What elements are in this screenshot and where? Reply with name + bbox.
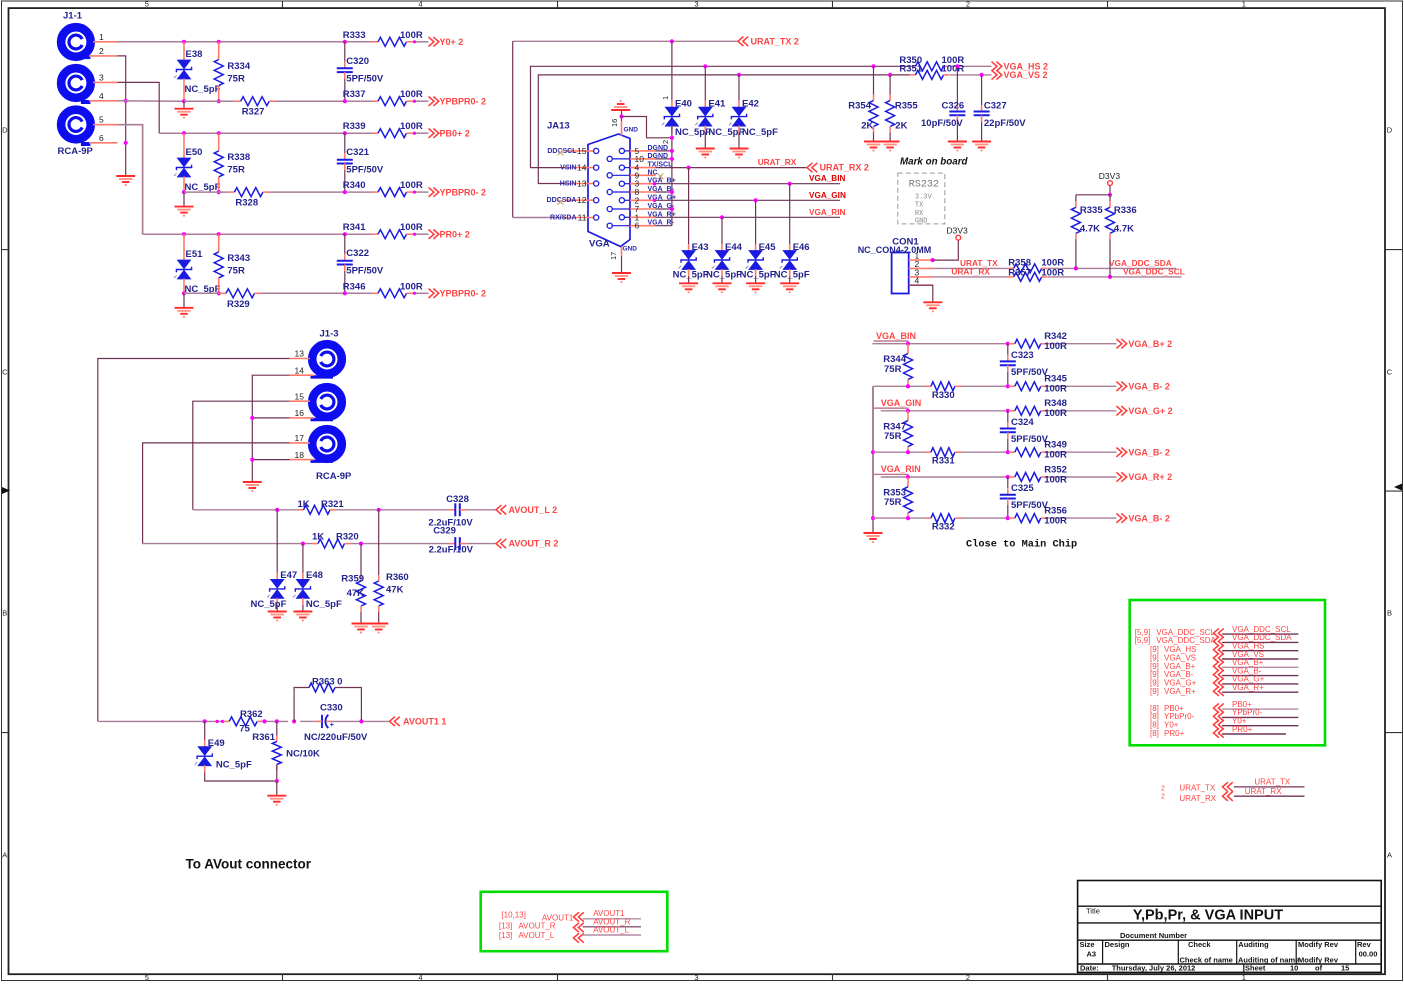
resistor R363 bypass <box>294 677 361 722</box>
wire pin16 to DGND rail <box>622 117 672 138</box>
svg-text:NC_5pF: NC_5pF <box>740 270 776 281</box>
svg-text:URAT_TX 2: URAT_TX 2 <box>751 36 799 46</box>
junction C324 bottom <box>1006 450 1010 454</box>
svg-text:GND: GND <box>915 217 928 225</box>
svg-text:2: 2 <box>966 973 970 982</box>
svg-text:VGA: VGA <box>589 239 610 250</box>
svg-text:B: B <box>1387 609 1392 618</box>
svg-text:R360: R360 <box>386 572 409 583</box>
svg-text:R363: R363 <box>312 677 335 688</box>
wire PR0 top row <box>184 233 429 235</box>
junction R361 top <box>275 719 279 723</box>
port Y0 YPBPR0- <box>429 96 487 106</box>
svg-text:1K: 1K <box>298 499 310 510</box>
junction E48 top <box>301 542 305 546</box>
resistor R352 <box>1009 464 1067 485</box>
junction R347 bottom <box>906 450 910 454</box>
capacitor C329 <box>429 526 474 556</box>
svg-text:VGA_B- 2: VGA_B- 2 <box>1128 382 1170 392</box>
wire Y0 bottom row <box>184 100 429 102</box>
junction R335 bottom <box>1074 266 1078 270</box>
ground R360 <box>369 624 388 634</box>
svg-text:D: D <box>2 126 8 135</box>
junction R353 bottom <box>906 516 910 520</box>
svg-text:E51: E51 <box>186 249 204 260</box>
port AVOUT_L 2 <box>496 505 557 515</box>
wire DGND pin10 <box>656 158 672 160</box>
resistor R334 <box>214 42 251 101</box>
svg-text:VGA_B- 2: VGA_B- 2 <box>1128 447 1170 457</box>
svg-text:1: 1 <box>661 96 670 100</box>
junction R334 top <box>217 40 221 44</box>
svg-text:J1-1: J1-1 <box>63 11 83 22</box>
tvs diode E45 <box>740 200 777 283</box>
label 2 URAT_TX <box>1161 783 1216 792</box>
svg-text:7: 7 <box>635 204 640 214</box>
resistor R327 <box>235 97 276 118</box>
junction aux a <box>216 720 219 723</box>
svg-text:5PF/50V: 5PF/50V <box>1011 367 1049 378</box>
capacitor C330 <box>304 702 368 742</box>
svg-text:R337: R337 <box>343 89 366 100</box>
junction C321 top <box>343 131 347 135</box>
svg-text:Sheet: Sheet <box>1245 964 1266 973</box>
junction E49 top <box>203 719 207 723</box>
wire PB0 bottom row <box>184 191 429 193</box>
svg-text:VGA_DDC_SCL: VGA_DDC_SCL <box>1123 266 1185 276</box>
resistor R359 <box>341 544 365 624</box>
no-connect X pin9 NC <box>658 173 664 179</box>
svg-text:R321: R321 <box>321 499 344 510</box>
junction C320 bottom <box>343 99 347 103</box>
junction pin16 <box>619 114 623 118</box>
junction pin16 rail <box>250 416 254 420</box>
resistor R347 <box>883 411 912 453</box>
CON1 pin 4 <box>909 276 933 286</box>
svg-text:R357: R357 <box>1008 268 1031 279</box>
ground C326 <box>948 142 967 152</box>
svg-text:1: 1 <box>1242 973 1246 982</box>
port VGA_VS 2 <box>992 70 1048 80</box>
svg-text:R330: R330 <box>932 390 955 401</box>
wire ground rail pins 2-4-6 <box>118 56 126 176</box>
J1-3 pin 17 <box>290 433 310 443</box>
resistor R335 <box>1071 195 1103 269</box>
svg-text:E43: E43 <box>692 242 709 253</box>
junction C323 bottom <box>1006 384 1010 388</box>
ground J1-3 rail <box>243 482 262 492</box>
svg-text:[13]: [13] <box>499 921 512 930</box>
junction R360 top <box>377 508 381 512</box>
svg-text:R354: R354 <box>848 101 871 112</box>
JA13 pin 4 TX/SCL <box>619 162 673 173</box>
svg-text:AVOUT_L: AVOUT_L <box>518 931 554 940</box>
resistor R329 <box>220 289 261 310</box>
svg-text:100R: 100R <box>1044 515 1067 526</box>
svg-text:C327: C327 <box>984 101 1007 112</box>
capacitor C323 <box>1000 344 1049 387</box>
svg-text:VGA_GIN: VGA_GIN <box>881 398 922 408</box>
JA13 pin 8 VGA_B- <box>607 186 675 197</box>
wire PR0 bottom row <box>184 292 429 294</box>
junction E50 bottom <box>182 190 186 194</box>
svg-text:5: 5 <box>99 115 104 125</box>
net AVOUT_L line <box>583 926 641 935</box>
svg-text:JA13: JA13 <box>547 121 570 132</box>
ground E44 <box>713 283 732 293</box>
svg-text:URAT_TX: URAT_TX <box>1179 783 1216 792</box>
wire VGA_DDC_SDA <box>1048 258 1176 269</box>
svg-text:NC: NC <box>648 169 658 176</box>
capacitor C328 <box>428 494 473 529</box>
tvs diode E38 <box>174 42 221 101</box>
J1-1 pin 1 <box>93 32 118 42</box>
svg-text:2: 2 <box>1161 793 1165 800</box>
junction E50 top <box>182 131 186 135</box>
svg-text:5PF/50V: 5PF/50V <box>346 266 384 277</box>
svg-text:URAT_RX: URAT_RX <box>1245 787 1282 796</box>
wire AVOUT1 row <box>264 720 390 722</box>
port VGA_HS 2 <box>992 61 1049 71</box>
junction DGND pin10 <box>670 157 674 161</box>
port PB0 YPBPR0- <box>429 187 487 197</box>
junction C323 top <box>1006 342 1010 346</box>
wire VGA_VS row <box>538 75 991 184</box>
J1-1 pin 6 <box>89 133 118 143</box>
capacitor C321 <box>337 133 384 192</box>
svg-text:5PF/50V: 5PF/50V <box>346 73 384 84</box>
wire pin5 to PR0 row <box>118 125 379 235</box>
svg-text:PB0+ 2: PB0+ 2 <box>440 128 470 138</box>
J1-3 pin 18 <box>290 450 314 460</box>
junction R344 top <box>906 342 910 346</box>
svg-text:Auditing: Auditing <box>1238 940 1269 949</box>
wire VGA_B- row <box>873 385 1116 387</box>
junction R363 left <box>292 719 296 723</box>
svg-text:E44: E44 <box>725 242 743 253</box>
junction pin2 stub <box>653 199 657 203</box>
ground E42 <box>730 149 749 159</box>
ground E48 <box>293 612 312 622</box>
resistor R353 <box>883 477 912 519</box>
svg-text:18: 18 <box>295 450 305 460</box>
svg-text:4: 4 <box>418 0 422 9</box>
capacitor C320 <box>337 42 384 101</box>
svg-text:URAT_RX: URAT_RX <box>758 157 797 167</box>
svg-text:C: C <box>2 368 8 377</box>
net label VGA_RIN <box>874 464 921 474</box>
tvs diode E50 <box>174 133 221 193</box>
svg-text:Close to Main Chip: Close to Main Chip <box>966 539 1077 551</box>
resistor R354 <box>848 66 878 141</box>
wire AVOUT_L row <box>336 509 496 511</box>
JA13 pin 9 NC <box>607 169 658 180</box>
connector J1-1 jack B <box>61 68 91 102</box>
connector J1-3 jack A <box>311 329 342 377</box>
ground E45 <box>746 283 765 293</box>
capacitor C325 <box>1000 477 1049 518</box>
capacitor C326 <box>921 66 965 141</box>
resistor R344 <box>883 344 912 386</box>
ground J1-1 rail <box>116 176 135 186</box>
svg-text:C326: C326 <box>942 101 965 112</box>
ground R355 <box>881 142 900 152</box>
wire VGA_HS row <box>531 66 992 167</box>
junction E38 bottom <box>182 99 186 103</box>
junction E40 top <box>670 39 674 43</box>
svg-text:URAT_TX: URAT_TX <box>1254 778 1291 787</box>
svg-text:R334: R334 <box>227 61 250 72</box>
note Close to Main Chip <box>966 539 1077 551</box>
CON1 pin 2 <box>909 259 933 269</box>
svg-text:A3: A3 <box>1087 949 1097 958</box>
JA13 pin 5 DGND <box>619 145 668 156</box>
junction R336 bottom <box>1108 275 1112 279</box>
tvs diode E41 <box>695 99 744 149</box>
svg-text:AVOUT_L 2: AVOUT_L 2 <box>509 505 558 515</box>
svg-text:YPBPR0- 2: YPBPR0- 2 <box>440 187 487 197</box>
svg-text:R340: R340 <box>343 180 366 191</box>
svg-text:4.7K: 4.7K <box>1114 224 1134 235</box>
svg-text:AVOUT_R: AVOUT_R <box>518 921 555 930</box>
svg-text:NC_5pF: NC_5pF <box>185 84 221 95</box>
svg-text:47K: 47K <box>347 588 365 599</box>
JA13 pin 6 VGA_R- <box>607 220 675 231</box>
resistor R321 <box>298 499 345 514</box>
tvs diode E40 <box>661 41 711 144</box>
svg-text:15: 15 <box>295 391 305 401</box>
junction R346 out <box>413 292 416 295</box>
svg-text:RS232: RS232 <box>909 179 940 190</box>
svg-text:4: 4 <box>915 276 920 286</box>
label [8] PR0+ <box>1150 729 1185 738</box>
svg-text:NC_5pF: NC_5pF <box>306 599 342 610</box>
junction E41 top <box>703 64 707 68</box>
resistor R332 <box>925 514 961 533</box>
connector CON1 <box>858 237 932 294</box>
svg-text:R361: R361 <box>252 732 275 743</box>
svg-text:5: 5 <box>145 973 149 982</box>
svg-text:[10,13]: [10,13] <box>501 911 525 920</box>
label [9] VGA_G+ <box>1150 678 1197 687</box>
svg-text:[8]: [8] <box>1150 729 1159 738</box>
svg-text:PR0+: PR0+ <box>1232 725 1253 734</box>
svg-text:A: A <box>2 851 7 860</box>
svg-text:VGA_R+: VGA_R+ <box>1232 683 1264 692</box>
no-connect X DDCSCL <box>558 150 564 156</box>
resistor R337 <box>343 89 423 106</box>
svg-text:NC_CON4-2.0MM: NC_CON4-2.0MM <box>858 245 932 255</box>
junction E44 top <box>720 215 724 219</box>
wire pin4 row to E38 <box>118 100 185 102</box>
svg-text:17: 17 <box>609 252 618 260</box>
svg-text:100R: 100R <box>1044 341 1067 352</box>
port PR0 YPBPR0- <box>429 289 487 299</box>
svg-text:R346: R346 <box>343 281 366 292</box>
svg-text:Y0+ 2: Y0+ 2 <box>440 37 464 47</box>
capacitor C324 <box>1000 411 1049 452</box>
svg-text:8: 8 <box>635 187 640 197</box>
svg-text:100R: 100R <box>1044 450 1067 461</box>
wire pin15 to AVOUT_L rail <box>193 401 298 510</box>
port VGA_B- R out <box>1116 513 1170 523</box>
wire pin8 to rail <box>656 191 672 193</box>
svg-text:VGA_BIN: VGA_BIN <box>876 331 916 341</box>
junction C321 bottom <box>343 190 347 194</box>
resistor R336 <box>1106 195 1137 277</box>
ground E38 <box>175 101 194 119</box>
wire VGA_DDC_SCL <box>1048 266 1185 277</box>
tvs diode E42 <box>729 99 778 149</box>
port VGA_R+ out <box>1116 472 1172 482</box>
svg-text:4: 4 <box>418 973 422 982</box>
svg-text:VGA_DDC_SDA: VGA_DDC_SDA <box>1156 636 1216 645</box>
svg-text:1: 1 <box>99 32 104 42</box>
wire PB0 top row <box>184 132 429 134</box>
svg-text:J1-3: J1-3 <box>320 329 339 340</box>
svg-text:11: 11 <box>578 213 587 223</box>
svg-text:C330: C330 <box>320 702 343 713</box>
J1-3 pin 14 <box>290 365 314 375</box>
junction C325 top <box>1006 475 1010 479</box>
net VGA_B- port <box>1214 666 1299 679</box>
resistor R356 <box>1009 505 1067 526</box>
svg-text:2: 2 <box>661 140 670 144</box>
junction C322 bottom <box>343 291 347 295</box>
svg-text:5: 5 <box>145 0 149 9</box>
chevrons box1 <box>574 912 584 942</box>
resistor R328 <box>228 188 269 209</box>
wire VGA_G+ row <box>881 410 1117 412</box>
svg-text:4.7K: 4.7K <box>1080 224 1100 235</box>
green box AVOUT ports <box>481 892 668 951</box>
net URAT_RX port <box>1223 787 1305 801</box>
svg-text:VGA_RIN: VGA_RIN <box>881 464 921 474</box>
svg-text:R327: R327 <box>242 107 265 118</box>
svg-text:10: 10 <box>635 154 645 164</box>
node [13] AVOUT_R <box>499 921 556 930</box>
ground right net rail <box>864 533 883 543</box>
wire VGA_RIN row <box>656 208 846 217</box>
svg-text:E50: E50 <box>186 147 203 158</box>
svg-text:R331: R331 <box>932 456 955 467</box>
svg-text:14: 14 <box>577 163 587 173</box>
power D3V3 at CON1 <box>933 226 968 261</box>
junction R354 top <box>871 64 875 68</box>
node [10,13] AVOUT1 <box>501 911 573 923</box>
svg-text:5PF/50V: 5PF/50V <box>1011 434 1049 445</box>
connector J1-1 jack C <box>58 110 94 157</box>
JA13 pin 13 HSIN <box>560 179 599 189</box>
svg-text:R335: R335 <box>1080 205 1103 216</box>
svg-text:100R: 100R <box>942 64 965 75</box>
label [5,9] VGA_DDC_SCL <box>1135 628 1216 637</box>
svg-text:12: 12 <box>577 195 587 205</box>
wire E49 bottom <box>205 772 277 781</box>
net Y0+ port <box>1214 717 1299 730</box>
svg-text:75R: 75R <box>227 266 245 277</box>
svg-text:NC_5pF: NC_5pF <box>673 270 709 281</box>
JA13 pin 10 DGND <box>607 153 668 164</box>
J1-1 pin 2 <box>89 46 118 56</box>
net VGA_DDC_SCL port <box>1214 625 1299 638</box>
junction pin7 rail <box>670 207 674 211</box>
resistor R360 <box>374 510 409 624</box>
port AVOUT1 1 <box>390 717 447 727</box>
svg-text:VGA_R+: VGA_R+ <box>1164 687 1196 696</box>
J1-1 pin 3 <box>93 72 118 82</box>
svg-text:47K: 47K <box>386 584 404 595</box>
svg-text:75R: 75R <box>884 364 902 375</box>
port Y0+ <box>429 37 464 47</box>
svg-text:VGA_G+ 2: VGA_G+ 2 <box>1128 406 1172 416</box>
J1-1 pin 4 <box>89 91 118 101</box>
svg-text:2K: 2K <box>895 121 907 132</box>
wire pin1 to Y0 row <box>118 41 379 43</box>
svg-text:13: 13 <box>295 349 305 359</box>
svg-text:16: 16 <box>295 408 305 418</box>
svg-text:VSIN: VSIN <box>560 165 576 172</box>
junction C320 top <box>343 40 347 44</box>
svg-text:100R: 100R <box>400 121 423 132</box>
svg-text:9: 9 <box>635 170 640 180</box>
wire VGA_G- row <box>873 451 1116 453</box>
connector J1-1 jack A <box>61 11 91 58</box>
junction pin4 rail <box>124 99 128 103</box>
JA13 pin 16 GND <box>610 117 638 136</box>
svg-text:YPBPR0- 2: YPBPR0- 2 <box>440 289 487 299</box>
svg-text:+: + <box>330 722 334 729</box>
net AVOUT1 line <box>583 909 641 919</box>
svg-text:2: 2 <box>1161 785 1165 792</box>
wire pin16 to rail <box>252 417 289 419</box>
net YPbPr0- port <box>1214 708 1299 721</box>
svg-text:NC_5pF: NC_5pF <box>706 270 742 281</box>
svg-text:To AVout connector: To AVout connector <box>186 857 312 872</box>
svg-text:1: 1 <box>1242 0 1246 9</box>
ground C327 <box>972 142 991 152</box>
junction pin8 rail <box>670 190 674 194</box>
junction R359 top <box>359 542 363 546</box>
svg-text:13: 13 <box>577 179 587 189</box>
svg-text:R351: R351 <box>899 64 922 75</box>
tvs diode E44 <box>706 217 743 283</box>
svg-text:75R: 75R <box>884 497 902 508</box>
svg-text:URAT_RX: URAT_RX <box>1179 794 1216 803</box>
svg-text:Mark on board: Mark on board <box>900 157 969 168</box>
junction C325 bottom <box>1006 516 1010 520</box>
svg-text:AVOUT1 1: AVOUT1 1 <box>403 717 446 727</box>
resistor R333 <box>343 30 423 47</box>
resistor R358 <box>1008 257 1065 273</box>
port PB0+ <box>429 128 470 138</box>
svg-text:URAT_RX: URAT_RX <box>951 266 990 276</box>
capacitor C322 <box>337 234 384 293</box>
ground CON1 pin4 <box>909 285 943 312</box>
svg-text:R355: R355 <box>895 101 918 112</box>
svg-text:Size: Size <box>1080 940 1095 949</box>
svg-text:RX/SDA: RX/SDA <box>550 215 576 222</box>
junction R361 bottom <box>275 779 279 783</box>
ground E46 <box>780 283 799 293</box>
tvs diode E49 <box>195 721 252 772</box>
svg-text:E41: E41 <box>708 99 726 110</box>
junction R337 out <box>413 100 416 103</box>
junction R334 bottom <box>217 99 221 103</box>
label 2 URAT_RX <box>1161 793 1217 803</box>
svg-text:75R: 75R <box>227 73 245 84</box>
power D3V3 pullups <box>1099 171 1121 195</box>
